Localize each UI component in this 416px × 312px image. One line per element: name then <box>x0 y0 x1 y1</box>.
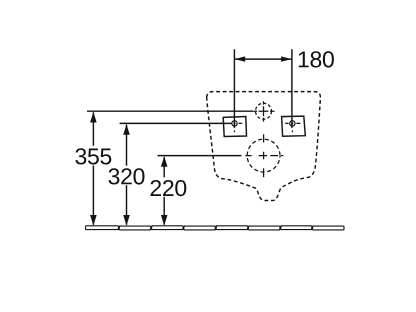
level line 320 <box>120 122 232 124</box>
fixing square left <box>223 117 246 137</box>
small circle (water inlet) dashed <box>256 103 272 119</box>
dim 220 arrows <box>161 156 168 167</box>
dim 355 arrows <box>90 112 97 123</box>
small circle crosshair horizontal <box>254 110 275 112</box>
label 180 <box>299 51 334 67</box>
floor strip (segmented) <box>86 226 345 231</box>
dim 180 extension line right <box>291 49 293 128</box>
dim 320 vertical line <box>126 125 128 225</box>
dim 180 extension line left <box>233 49 235 128</box>
level line 220 <box>158 155 242 157</box>
level line 355 <box>87 110 253 112</box>
dim 220 vertical line <box>163 157 165 225</box>
large circle (drain) dashed <box>247 139 280 172</box>
hole marker left (ring + dot + ticks) <box>232 121 242 132</box>
dim 180 arrow right <box>281 56 292 61</box>
label 320 <box>108 168 144 184</box>
ceramic outline (dashed rear view of WC) <box>207 92 321 201</box>
large circle crosshair vertical <box>263 134 265 177</box>
label 220 <box>151 180 187 196</box>
label 355 <box>75 148 111 164</box>
hole marker right (ring + dot + ticks) <box>285 121 300 132</box>
fixing square right <box>282 116 306 136</box>
large circle crosshair horizontal dashes <box>245 155 283 157</box>
dim 180 line <box>234 58 292 60</box>
dim 180 arrow left <box>235 56 246 61</box>
dim 320 arrows <box>123 124 130 135</box>
floor joints <box>118 226 314 231</box>
dim 355 vertical line <box>92 112 94 225</box>
small circle crosshair vertical <box>263 101 265 121</box>
